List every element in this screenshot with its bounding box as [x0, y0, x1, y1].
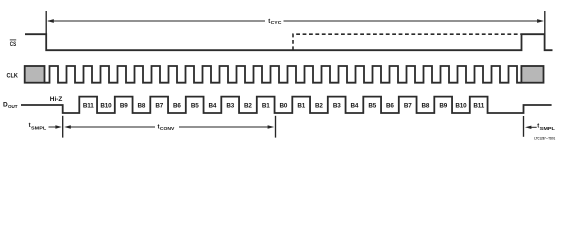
bit label B6 — [173, 102, 181, 109]
svg-text:B7: B7 — [155, 102, 163, 109]
svg-text:B2: B2 — [244, 102, 252, 109]
tSMPL left label — [29, 123, 47, 130]
svg-text:B6: B6 — [386, 102, 394, 109]
bit label B9 — [120, 102, 128, 109]
bit label B2 (2nd pass) — [315, 102, 323, 109]
bit label B5 (2nd pass) — [368, 102, 376, 109]
svg-text:B11: B11 — [473, 102, 484, 109]
bit label B7 (2nd pass) — [404, 102, 412, 109]
svg-text:OUT: OUT — [8, 104, 18, 110]
CLK gray box right — [521, 66, 543, 83]
svg-text:B5: B5 — [368, 102, 376, 109]
svg-text:B3: B3 — [333, 102, 341, 109]
svg-text:B8: B8 — [138, 102, 146, 109]
tCYC right tick — [544, 11, 546, 35]
bit label B5 — [191, 102, 199, 109]
bit label B3 — [226, 102, 234, 109]
tCYC label — [268, 19, 282, 25]
bit label B4 (2nd pass) — [351, 102, 359, 109]
svg-text:B4: B4 — [351, 102, 359, 109]
CS dashed early-return path — [293, 34, 521, 50]
CS waveform — [25, 34, 553, 50]
bit label B8 (2nd pass) — [422, 102, 430, 109]
svg-text:B8: B8 — [422, 102, 430, 109]
bit label B10 (2nd pass) — [455, 102, 467, 109]
svg-text:B0: B0 — [280, 102, 288, 109]
CLK pulse train — [45, 66, 522, 83]
bit label B4 — [209, 102, 217, 109]
tSMPL right label — [537, 123, 555, 130]
DOUT waveform — [21, 97, 552, 113]
bit label B0 — [280, 102, 288, 109]
svg-text:CS: CS — [10, 41, 17, 48]
svg-text:B10: B10 — [100, 102, 112, 109]
svg-text:B7: B7 — [404, 102, 412, 109]
svg-text:LTC1287 • TD01: LTC1287 • TD01 — [534, 137, 555, 141]
bit label B11 — [83, 102, 94, 109]
svg-text:B3: B3 — [226, 102, 234, 109]
signal label DOUT — [3, 101, 18, 110]
next-sample tick — [523, 116, 525, 137]
bit label B6 (2nd pass) — [386, 102, 394, 109]
svg-text:B1: B1 — [262, 102, 270, 109]
bit label B9 (2nd pass) — [439, 102, 447, 109]
bit label B1 — [262, 102, 270, 109]
sample/convert boundary tick — [62, 116, 64, 138]
tCYC left tick — [45, 11, 47, 35]
svg-text:B10: B10 — [455, 102, 467, 109]
svg-text:B6: B6 — [173, 102, 181, 109]
svg-text:Hi-Z: Hi-Z — [50, 97, 63, 103]
Hi-Z label — [50, 97, 63, 103]
signal label CS (overlined) — [10, 40, 17, 48]
bit label B3 (2nd pass) — [333, 102, 341, 109]
bit label B2 — [244, 102, 252, 109]
svg-text:B11: B11 — [83, 102, 94, 109]
svg-text:B9: B9 — [439, 102, 447, 109]
tSMPL right arrow — [525, 126, 537, 129]
tSMPL left arrow — [49, 125, 62, 128]
svg-text:CLK: CLK — [7, 73, 19, 80]
tCONV label — [158, 124, 176, 131]
svg-text:B5: B5 — [191, 102, 199, 109]
CLK gray box left — [25, 66, 45, 83]
svg-text:B1: B1 — [297, 102, 305, 109]
svg-text:CYC: CYC — [271, 20, 283, 25]
bit label B7 — [155, 102, 163, 109]
svg-text:B2: B2 — [315, 102, 323, 109]
svg-text:SMPL: SMPL — [31, 125, 46, 130]
svg-text:CONV: CONV — [160, 126, 175, 131]
bit label B1 (2nd pass) — [297, 102, 305, 109]
svg-text:B9: B9 — [120, 102, 128, 109]
figure tag — [534, 137, 555, 141]
tCYC arrow line — [47, 19, 544, 23]
conversion end tick — [275, 116, 277, 138]
tCONV arrow — [64, 125, 274, 128]
bit label B8 — [138, 102, 146, 109]
svg-text:SMPL: SMPL — [540, 126, 555, 131]
svg-text:B4: B4 — [209, 102, 217, 109]
bit label B10 — [100, 102, 112, 109]
bit label B11 (2nd pass) — [473, 102, 484, 109]
signal label CLK — [7, 73, 19, 80]
